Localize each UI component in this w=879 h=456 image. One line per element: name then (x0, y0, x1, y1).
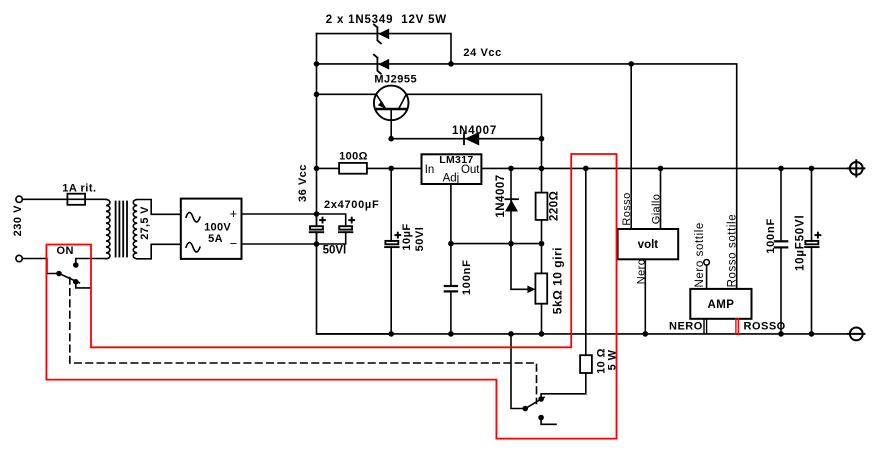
wire wiper from adj (511, 244, 530, 290)
node 24Vcc / volt rosso (628, 61, 634, 67)
switch S1b contact to 10ohm (538, 396, 544, 402)
wire pot bottom to bus (541, 304, 543, 334)
capacitor C5 bottom lead (780, 247, 782, 334)
input terminal top (230V live) (16, 196, 22, 202)
svg-text:Rosso sottile: Rosso sottile (727, 214, 739, 288)
svg-text:+: + (230, 206, 238, 221)
node Adj (448, 241, 454, 247)
svg-text:Adj: Adj (443, 173, 460, 185)
node In / base / 10uF (388, 166, 394, 172)
input terminal bottom (230V neutral) (16, 255, 22, 261)
wire red cable loop (46, 154, 616, 439)
rail 36Vcc vertical (top section) (316, 34, 318, 225)
node zener right (448, 61, 454, 67)
node 36Vcc / 100ohm (314, 166, 320, 172)
capacitor C2 4700uF top lead (317, 214, 346, 226)
node adj / 220ohm (539, 241, 545, 247)
wire bridge - output (242, 243, 317, 245)
svg-text:Rosso: Rosso (621, 192, 633, 225)
switch S1a contact to red cable (73, 279, 79, 285)
ammeter NERO lead double (703, 319, 705, 334)
wire rosso sottile to 24Vcc (drawn with rail) (736, 285, 738, 289)
svg-text:In: In (425, 164, 435, 176)
wire neutral to switch (22, 259, 59, 274)
node bridge + / rail (314, 211, 320, 217)
label plus C2 (348, 217, 355, 224)
wire adj rail (451, 243, 542, 245)
wire LM317 Out rail (481, 167, 850, 169)
fuse F1 1A rit. (67, 194, 85, 205)
svg-text:5kΩ 10 giri: 5kΩ 10 giri (550, 247, 564, 314)
wire volt rosso to 24Vcc (630, 64, 632, 229)
output terminal plus (850, 162, 863, 175)
svg-text:1N4007: 1N4007 (452, 125, 497, 137)
node out / D4 (508, 166, 514, 172)
potentiometer P1 5k 10 giri (535, 273, 547, 303)
svg-text:220Ω: 220Ω (549, 191, 561, 221)
transformer T1 secondary winding 27,5V (133, 200, 137, 259)
wire fuse to transformer primary (85, 198, 106, 200)
wire bridge + output (242, 213, 317, 215)
svg-text:10µF50Vl: 10µF50Vl (795, 215, 807, 271)
node bridge - / rail (314, 241, 320, 247)
zener D2 1N5349 (374, 55, 381, 74)
zener D1 1N5349 (374, 24, 381, 43)
switch S1b open contact stub (538, 415, 544, 421)
svg-text:50Vl: 50Vl (414, 227, 426, 252)
node bus / C5 (778, 331, 784, 337)
diode D4 symbol (505, 198, 518, 200)
node bus / C4 (448, 331, 454, 337)
resistor R2 220ohm (536, 193, 548, 220)
capacitor C6 plates (805, 241, 818, 244)
ammeter ROSSO lead double red (735, 319, 737, 335)
switch S1b blade (525, 397, 544, 408)
switch S1b pole (523, 406, 529, 412)
label plus C3 (394, 232, 401, 239)
wire base to diode row (391, 138, 541, 140)
wire 10ohm to switch (585, 373, 587, 394)
label plus C6 (815, 232, 822, 239)
node out / giallo (658, 166, 664, 172)
capacitor C4 100nF lead (450, 244, 452, 286)
node bus / switch pole (508, 331, 514, 337)
transformer T1 primary winding (106, 200, 110, 259)
capacitor C4 plates (445, 285, 457, 287)
op-amp U1 LM317 box (422, 154, 482, 184)
capacitor C6 10uF50Vl top lead (811, 168, 813, 241)
node adj / D4 (508, 241, 514, 247)
svg-text:Giallo: Giallo (651, 194, 663, 225)
wire collector rail to 220 chain (406, 94, 541, 192)
svg-text:volt: volt (638, 239, 659, 251)
capacitor C5 plates (775, 240, 787, 242)
svg-text:100V: 100V (204, 222, 231, 234)
node out / 220ohm (539, 166, 545, 172)
transistor Q1 emitter with arrow (376, 94, 386, 109)
wire out to 10ohm (585, 168, 587, 355)
diode D3 1N4007 (463, 133, 465, 144)
label plus C1 (319, 217, 326, 224)
voltmeter M1 box (618, 229, 679, 259)
svg-text:1A rit.: 1A rit. (62, 183, 96, 195)
svg-text:ON: ON (57, 245, 75, 257)
capacitor C1 plates (310, 226, 323, 229)
svg-text:50Vl: 50Vl (323, 245, 347, 257)
capacitor C5 100nF top lead (780, 168, 782, 241)
svg-text:5 W: 5 W (607, 349, 619, 370)
diode D4 1N4007 leads (510, 168, 512, 243)
svg-text:Nero: Nero (636, 259, 648, 284)
resistor R3 10ohm 5W (580, 355, 592, 373)
capacitor C6 bottom lead (811, 247, 813, 334)
rail 0V vertical (bottom section) to bus (317, 233, 392, 334)
node zener left (314, 61, 320, 67)
wire LM317 Adj lead (450, 184, 452, 244)
wire zener row 2 (317, 63, 452, 65)
switch S1a pole junction (56, 271, 62, 277)
capacitor C3 10uF 50Vl lead (390, 168, 392, 241)
switch S1a contact to primary (73, 262, 79, 268)
svg-text:Out: Out (461, 164, 480, 176)
wiper arrow (527, 286, 535, 294)
svg-text:MJ2955: MJ2955 (374, 74, 417, 86)
mechanical coupling dashed link (70, 278, 537, 404)
svg-text:36 Vcc: 36 Vcc (297, 164, 309, 202)
resistor R1 100ohm (339, 163, 367, 174)
bridge ac symbol top (186, 212, 200, 222)
wire base lead (390, 109, 392, 139)
output terminal minus (850, 328, 863, 341)
node out / C5 (778, 166, 784, 172)
svg-text:230 V: 230 V (12, 205, 24, 236)
svg-text:1N4007: 1N4007 (495, 174, 507, 217)
wire bus to output switch pole (511, 334, 525, 409)
wire emitter rail (317, 93, 377, 95)
ammeter M2 AMP box (690, 289, 751, 319)
node bus / pot (539, 331, 545, 337)
wire secondary bottom to bridge (137, 244, 181, 258)
svg-text:Nero sottile: Nero sottile (694, 222, 706, 287)
wire ground bus (317, 333, 850, 335)
svg-text:5A: 5A (208, 233, 223, 245)
svg-text:−: − (230, 236, 238, 251)
wire volt nero to bus (644, 259, 646, 334)
transformer T1 core (115, 202, 117, 257)
transistor Q1 base bar (376, 108, 407, 110)
transistor Q1 collector (399, 94, 407, 109)
wire secondary top to bridge (137, 200, 181, 215)
node out / 10ohm (583, 166, 589, 172)
svg-text:100nF: 100nF (765, 218, 777, 254)
wire rail to 100ohm (317, 167, 340, 169)
switch S1a blade (59, 274, 79, 283)
node bus / C3 (388, 331, 394, 337)
svg-text:100nF: 100nF (461, 259, 473, 295)
capacitor C2 plates (339, 226, 352, 229)
svg-text:NERO: NERO (669, 321, 703, 333)
node bus / nero (643, 331, 649, 337)
node emitter rail left (314, 92, 320, 98)
node out / C6 (809, 166, 815, 172)
svg-text:2 x 1N5349 12V 5W: 2 x 1N5349 12V 5W (326, 14, 447, 26)
svg-text:ROSSO: ROSSO (744, 321, 786, 333)
wire live to fuse (22, 198, 67, 200)
node open terminal nero sottile (704, 260, 710, 266)
wire 100ohm to LM317 In (367, 167, 422, 169)
wire 24Vcc rail (451, 64, 737, 289)
capacitor C1 4700uF (on rail) top lead (316, 214, 318, 226)
wire zener loop top (317, 34, 452, 64)
svg-text:100Ω: 100Ω (339, 151, 368, 163)
bridge rectifier B1 100V 5A (181, 199, 242, 259)
node bus / C6 (809, 331, 815, 337)
wire 220ohm to adj (541, 220, 543, 274)
svg-text:2x4700µF: 2x4700µF (324, 199, 379, 211)
capacitor C2 bottom lead (317, 232, 346, 244)
node diode row right (539, 136, 545, 142)
node base / 1N4007 (388, 136, 394, 142)
svg-text:10µF: 10µF (401, 223, 413, 250)
capacitor C3 plates (385, 241, 398, 244)
transistor Q1 MJ2955 body (374, 86, 409, 121)
wire volt giallo to out rail (660, 168, 662, 229)
capacitor C4 bottom lead (450, 291, 452, 334)
svg-text:AMP: AMP (708, 299, 735, 311)
wire nero sottile test point (706, 265, 708, 289)
svg-text:27,5 V: 27,5 V (139, 206, 151, 240)
svg-text:24 Vcc: 24 Vcc (463, 47, 501, 59)
bridge ac symbol bottom (186, 242, 200, 252)
capacitor C3 bottom lead (390, 247, 392, 334)
